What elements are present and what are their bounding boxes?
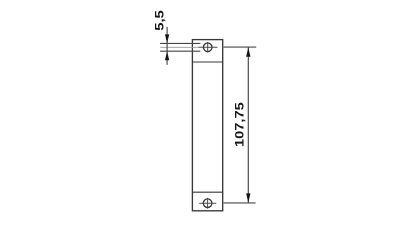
part outline	[192, 40, 222, 211]
dimension 5,5 extension line lower	[160, 50, 200, 52]
top hole	[199, 42, 218, 53]
dimension 107,75 arrowhead bottom (points down)	[246, 193, 250, 202]
top block separator line	[192, 61, 222, 63]
bottom block separator line	[192, 191, 222, 193]
dimension 5,5 dimension line	[166, 27, 168, 65]
dimension text 5,5 (rotated)	[153, 10, 167, 31]
dimension 107,75 extension line top	[224, 46, 257, 48]
bottom hole	[199, 198, 216, 209]
dimension 107,75 arrowhead top (points up)	[246, 47, 250, 56]
dimension 107,75 extension line bottom	[224, 202, 256, 204]
svg-text:5,5: 5,5	[153, 10, 167, 31]
dimension 5,5 arrowhead top (points down)	[165, 34, 169, 43]
svg-text:107,75: 107,75	[232, 102, 246, 147]
dimension 5,5 extension line upper	[160, 42, 200, 44]
dimension 5,5 arrowhead bottom (points up)	[165, 51, 169, 60]
top hole centerline (horizontal, faint, extends left to dimension area)	[160, 46, 199, 48]
dimension 107,75 dimension line	[247, 47, 249, 203]
dimension text 107,75 (rotated)	[232, 102, 246, 147]
